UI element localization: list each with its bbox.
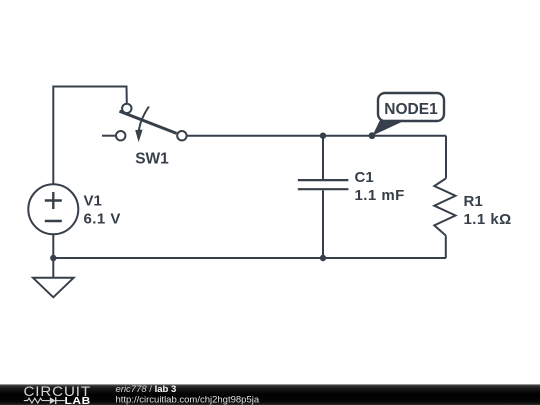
switch actuation arc	[139, 107, 149, 132]
logo resistor zigzag	[24, 398, 50, 403]
svg-text:1.1 kΩ: 1.1 kΩ	[464, 211, 512, 228]
bottom plate	[298, 188, 349, 190]
svg-text:LAB: LAB	[65, 396, 91, 405]
callout pointer overlap	[373, 120, 405, 136]
top plate	[298, 179, 349, 181]
resistor R1	[434, 136, 511, 258]
svg-text:6.1 V: 6.1 V	[84, 211, 121, 228]
wire V1 bottom to ground node	[52, 234, 54, 258]
footer credit line	[116, 384, 260, 405]
svg-text:1.1 mF: 1.1 mF	[355, 187, 405, 204]
wire stub left throw	[102, 135, 115, 137]
top lead	[322, 136, 324, 179]
svg-text:NODE1: NODE1	[384, 101, 438, 118]
wire from V1 top to switch pole	[53, 87, 127, 185]
switch right throw terminal circle	[177, 131, 186, 140]
switch blade	[120, 111, 177, 133]
wire switch to resistor top	[187, 135, 446, 137]
capacitor C1	[298, 136, 405, 258]
svg-text:SW1: SW1	[135, 151, 169, 168]
CircuitLab logo	[24, 384, 92, 405]
minus sign	[45, 220, 62, 222]
junction dot at V1/ground	[50, 255, 56, 261]
svg-text:C1: C1	[355, 169, 374, 186]
ground	[33, 258, 74, 297]
bottom wire	[53, 257, 446, 259]
switch left throw terminal circle	[116, 131, 125, 140]
voltage source V1	[28, 184, 120, 234]
callout box	[378, 93, 444, 121]
bottom lead	[445, 236, 447, 259]
junction dot capacitor bottom	[320, 255, 326, 261]
svg-text:http://circuitlab.com/chj2hgt9: http://circuitlab.com/chj2hgt98p5ja	[116, 395, 260, 405]
zigzag body	[434, 179, 455, 236]
svg-text:eric778 / lab 3: eric778 / lab 3	[116, 384, 177, 395]
logo diode	[50, 397, 56, 404]
plus sign	[45, 192, 62, 209]
bottom lead	[322, 190, 324, 258]
svg-text:R1: R1	[464, 193, 483, 210]
switch pole terminal circle	[122, 104, 131, 113]
top lead	[445, 136, 447, 179]
svg-text:V1: V1	[84, 193, 102, 210]
node NODE1 callout	[369, 93, 444, 139]
callout pointer	[373, 120, 407, 136]
junction dot NODE1	[369, 132, 376, 139]
footer bar	[0, 384, 540, 405]
switch arrow head	[135, 130, 142, 143]
junction dot capacitor top	[320, 133, 326, 139]
switch SW1	[102, 104, 187, 168]
